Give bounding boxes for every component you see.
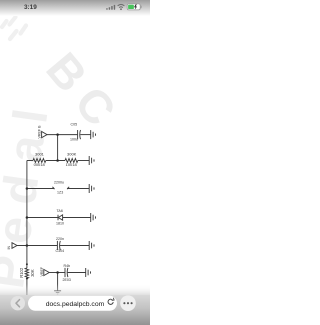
capacitor C2 row5: [57, 241, 89, 250]
svg-text:TA6: TA6: [57, 209, 63, 213]
wire row4: [27, 217, 58, 219]
svg-text:R102: R102: [19, 267, 24, 278]
capacitor C4 row6: [65, 268, 86, 277]
refresh icon: [108, 298, 114, 305]
node IN port row5: [12, 243, 57, 249]
labels (microtext): [7, 123, 78, 283]
svg-text:1Z3: 1Z3: [57, 191, 63, 195]
junction row4 bus: [26, 216, 29, 219]
wire row3: [27, 188, 54, 190]
ground row1: [91, 130, 96, 139]
capacitor C5 row1: [78, 130, 91, 139]
status bar: [0, 0, 150, 16]
junction row5 bus: [26, 244, 29, 247]
watermark corner dashes: [2, 17, 26, 39]
svg-text:IN: IN: [7, 246, 11, 250]
wire junction row1-row2: [57, 135, 59, 161]
bottom toolbar: [0, 295, 150, 325]
svg-text:300K: 300K: [67, 152, 77, 157]
svg-text:VREF: VREF: [40, 266, 44, 276]
node VREF port row6: [44, 269, 65, 275]
svg-text:220n: 220n: [56, 237, 64, 241]
signal bars: [106, 5, 115, 10]
ground row2: [89, 156, 94, 165]
svg-text:3001: 3001: [35, 152, 45, 157]
svg-text:1810: 1810: [56, 222, 64, 226]
ground row3: [89, 184, 94, 193]
more button: [120, 295, 136, 311]
junction row2: [56, 159, 59, 162]
watermark Pedal faint left: [0, 93, 61, 292]
svg-text:2200u: 2200u: [54, 181, 64, 185]
svg-text:100u: 100u: [70, 138, 78, 142]
ground bottom: [54, 291, 61, 294]
junction bus bottom: [26, 263, 28, 265]
ground row6: [86, 268, 91, 277]
svg-text:2E03: 2E03: [63, 278, 71, 282]
ground row5: [89, 241, 94, 250]
junction row6: [56, 271, 59, 274]
back button: [11, 296, 25, 310]
junction row1: [56, 133, 59, 136]
wire: [78, 160, 89, 162]
junction row3 bus: [26, 187, 29, 190]
wire row2 from bus corner: [27, 160, 33, 162]
svg-text:VREF B: VREF B: [38, 125, 42, 139]
svg-text:3:19: 3:19: [24, 4, 37, 11]
wire row6 junction down: [57, 273, 59, 291]
page fade above toolbar: [0, 284, 150, 296]
svg-text:docs.pedalpcb.com: docs.pedalpcb.com: [46, 301, 105, 308]
svg-text:10018: 10018: [66, 162, 78, 167]
url pill: [28, 296, 117, 311]
resistor R2 row2: [65, 159, 78, 163]
wire: [46, 160, 65, 162]
wire bus main: [26, 161, 28, 269]
svg-text:R4b: R4b: [64, 264, 71, 268]
node VREF_B port: [42, 132, 78, 138]
ground row4: [91, 213, 96, 222]
wifi icon: [118, 4, 125, 7]
diode D1 row4: [58, 215, 91, 221]
svg-text:C05: C05: [71, 123, 78, 127]
wire bus to bottom: [26, 277, 28, 296]
svg-text:C304: C304: [56, 249, 65, 253]
svg-text:30K: 30K: [30, 269, 35, 277]
resistor R16 vertical on bus: [25, 268, 28, 278]
capacitor C3 row3: [52, 187, 89, 189]
resistor R1 row2: [33, 159, 46, 163]
battery icon: [127, 4, 141, 10]
svg-text:00018: 00018: [34, 162, 46, 167]
watermark CB diagonal: [36, 42, 134, 144]
